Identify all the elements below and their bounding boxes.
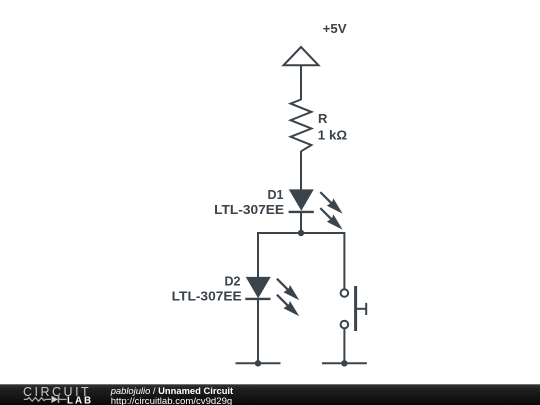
node junction dot (298, 230, 304, 236)
resistor R labels: R, 1 kOhm (318, 111, 347, 143)
wire resistor to D1 (300, 151, 302, 190)
svg-text:LTL-307EE: LTL-307EE (172, 289, 242, 304)
ground left (236, 362, 281, 364)
svg-text:D1: D1 (268, 187, 284, 202)
ground left junction dot (255, 360, 261, 366)
wire power to resistor (300, 65, 302, 100)
CircuitLab logo resistor-diode glyph (24, 396, 67, 403)
svg-text:R: R (318, 111, 328, 126)
footer credit line 1: pablojulio / Unnamed Circuit (110, 385, 233, 396)
resistor R (291, 100, 312, 152)
wire D1 to node (300, 212, 302, 233)
D2 labels (172, 273, 242, 303)
ground right (322, 362, 367, 364)
LED D1 (289, 189, 314, 212)
svg-text:D2: D2 (225, 273, 241, 288)
+5V label (323, 21, 347, 36)
footer black bar (0, 384, 540, 405)
svg-text:pablojulio / Unnamed Circuit: pablojulio / Unnamed Circuit (110, 385, 233, 396)
svg-text:LTL-307EE: LTL-307EE (214, 202, 284, 217)
pushbutton switch SW1 (341, 286, 367, 331)
horizontal wire at node (257, 232, 345, 234)
wire node to switch (343, 233, 345, 289)
ground right junction dot (341, 360, 347, 366)
power +5V symbol (284, 47, 319, 65)
CircuitLab logo text LAB (67, 395, 93, 405)
CircuitLab logo text CIRCUIT (23, 385, 91, 399)
wire D2 to ground (257, 299, 259, 363)
D1 labels (214, 187, 284, 217)
svg-text:1 kΩ: 1 kΩ (318, 127, 347, 142)
wire switch to ground (343, 328, 345, 363)
LED D1 emission arrows (320, 192, 342, 230)
svg-text:LAB: LAB (67, 395, 93, 405)
LED D2 (245, 277, 270, 299)
svg-text:+5V: +5V (323, 21, 347, 36)
svg-text:http://circuitlab.com/cv9d29g: http://circuitlab.com/cv9d29g (111, 396, 233, 405)
footer credit line 2: url (111, 396, 233, 405)
LED D2 emission arrows (277, 279, 299, 317)
wire node to D2 (257, 233, 259, 277)
